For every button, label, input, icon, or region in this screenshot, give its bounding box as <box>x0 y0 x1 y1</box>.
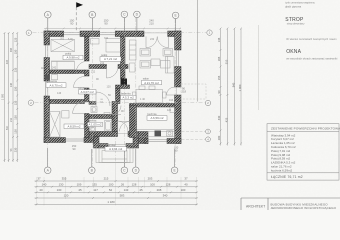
chimney block <box>121 79 128 85</box>
svg-text:A 3,94 m2: A 3,94 m2 <box>109 147 122 151</box>
svg-text:A 6,07 m2: A 6,07 m2 <box>81 90 94 94</box>
wc toilet <box>91 107 97 113</box>
interior wall wc/lazienka vertical <box>112 102 118 132</box>
interior dim texts <box>41 37 174 113</box>
svg-text:143: 143 <box>124 188 129 192</box>
toilet lazienka <box>90 127 96 132</box>
svg-text:212: 212 <box>100 62 105 65</box>
bottom witness lines <box>37 163 197 206</box>
interior wall H1 right stub <box>118 65 128 69</box>
svg-text:242: 242 <box>52 67 57 70</box>
axis circle 2 right <box>205 100 210 105</box>
svg-text:strop drewniany: strop drewniany <box>287 22 305 25</box>
door arc terrace <box>167 87 175 95</box>
right vertical dim line 4 <box>240 28 242 146</box>
window bottom wall left <box>66 139 85 141</box>
door arc lazienka <box>120 122 130 132</box>
flag marker <box>76 2 83 31</box>
svg-text:90: 90 <box>104 22 108 26</box>
svg-text:130: 130 <box>59 182 64 186</box>
sheet divider vertical line <box>197 0 199 102</box>
salon armchair right row2 <box>161 61 171 69</box>
svg-text:90: 90 <box>73 147 76 151</box>
svg-text:1 060: 1 060 <box>238 84 242 91</box>
dim row 3 <box>35 191 198 193</box>
axis circle A top <box>45 11 52 30</box>
axis circle C top <box>121 11 128 30</box>
svg-text:146: 146 <box>217 37 221 42</box>
window left wall lower <box>46 81 48 96</box>
svg-text:A 8,59 m2: A 8,59 m2 <box>67 125 80 129</box>
wall bathroom strip south <box>89 132 118 137</box>
entrance steps <box>96 145 133 163</box>
interior wall H4 wc/lazienka <box>89 115 112 119</box>
axis circle A bottom <box>44 148 51 174</box>
svg-text:A 5,3 m2: A 5,3 m2 <box>122 96 134 100</box>
svg-text:26: 26 <box>121 182 125 186</box>
svg-text:433: 433 <box>6 59 9 64</box>
svg-text:A 1,05 m2: A 1,05 m2 <box>88 123 101 127</box>
svg-text:232: 232 <box>150 38 155 41</box>
window bottom wall kitchen <box>148 140 167 142</box>
salon armchair left row2 <box>140 61 151 69</box>
salon armchair left <box>140 49 151 57</box>
furnace kotlownia <box>45 75 50 80</box>
svg-text:ŁĄCZNIE 76,71 m2: ŁĄCZNIE 76,71 m2 <box>271 175 303 179</box>
axis circle D bottom <box>133 149 140 174</box>
svg-text:150: 150 <box>13 115 17 120</box>
interior wall H3 salon/kuchnia <box>130 104 175 108</box>
svg-text:37: 37 <box>184 177 188 181</box>
svg-text:215: 215 <box>104 177 109 181</box>
terrace door opening right wall <box>175 87 177 95</box>
svg-text:425: 425 <box>225 117 229 122</box>
window right wall salon <box>176 50 178 67</box>
wall left middle <box>44 58 50 82</box>
small table bottom-left room <box>62 111 69 118</box>
svg-text:203: 203 <box>148 177 153 181</box>
bed top-left room <box>52 62 75 70</box>
interior wall H kotlownia/pokoj2 <box>50 100 85 104</box>
axis circle 3 right small <box>206 129 211 134</box>
wall bottom left segment <box>44 138 66 143</box>
wall right lower <box>175 95 182 144</box>
title block <box>241 198 340 210</box>
svg-text:JEDNORODZINNEGO WOLNOSTOJĄCEGO: JEDNORODZINNEGO WOLNOSTOJĄCEGO <box>271 206 337 210</box>
svg-text:100: 100 <box>109 182 114 186</box>
svg-text:128: 128 <box>132 182 137 186</box>
svg-text:208: 208 <box>157 188 162 192</box>
axis circle E top <box>172 12 179 30</box>
door arc top-left room <box>76 62 85 74</box>
right vertical dim line 1 <box>220 28 222 146</box>
svg-text:130: 130 <box>57 188 62 192</box>
svg-text:tynk cementowo-wapienny: tynk cementowo-wapienny <box>285 1 315 4</box>
dim row 5 <box>35 203 198 205</box>
salon armchair right <box>163 49 173 57</box>
entrance axis dashed line <box>115 100 117 163</box>
svg-text:37: 37 <box>37 177 41 181</box>
svg-text:5,00: 5,00 <box>68 38 73 41</box>
axis circle 1 right <box>207 30 212 35</box>
svg-text:510: 510 <box>6 125 9 130</box>
svg-text:302: 302 <box>60 38 65 41</box>
faint right content line <box>258 25 260 110</box>
wall top segment 3 <box>115 31 144 37</box>
interior wall wc north stub <box>89 102 96 105</box>
salon sofa <box>166 57 175 74</box>
svg-text:398: 398 <box>10 47 13 52</box>
interior wall V1 mid2 <box>85 88 90 102</box>
right vertical dim line 3 <box>234 28 236 146</box>
svg-text:we wszystkich oknach zastosowa: we wszystkich oknach zastosować nawiewni… <box>286 58 338 61</box>
WALLS <box>44 31 181 148</box>
door arc bathroom strip <box>96 92 110 106</box>
svg-text:146: 146 <box>10 82 13 87</box>
door arc kotlownia <box>74 77 85 88</box>
door arc entrance <box>118 121 129 132</box>
svg-text:90: 90 <box>175 149 178 153</box>
window left wall upper <box>46 45 48 58</box>
door arc wc <box>112 106 121 115</box>
salon tv <box>130 63 136 72</box>
vestibule east wall <box>133 137 139 149</box>
left vertical dim line 2 <box>8 32 10 162</box>
svg-text:940: 940 <box>232 82 236 87</box>
interior wall H pokoj/kotlownia <box>50 70 85 74</box>
svg-text:510: 510 <box>225 59 229 64</box>
svg-text:A 7,21 m2: A 7,21 m2 <box>104 57 117 61</box>
wardrobe cross top-left room <box>51 40 75 62</box>
kitchen stove <box>155 131 162 137</box>
interior wall V1 mid <box>85 70 90 76</box>
svg-text:211: 211 <box>10 117 13 122</box>
svg-text:117: 117 <box>93 188 98 192</box>
room label lazienka maly <box>88 120 103 127</box>
wall bottom kitchen segment <box>145 139 149 144</box>
INTERIOR <box>41 37 206 163</box>
axis dashed horizontals <box>33 33 207 103</box>
interior wall H2 stub <box>116 85 130 89</box>
svg-text:100: 100 <box>150 182 155 186</box>
interior wall V1 upper <box>85 37 90 62</box>
svg-text:230: 230 <box>13 147 17 152</box>
fridge <box>170 107 175 113</box>
svg-text:155: 155 <box>217 75 221 80</box>
svg-text:A 6,59 m2: A 6,59 m2 <box>150 116 163 120</box>
dim row 4 <box>35 197 198 199</box>
bottom jog block right <box>139 132 149 144</box>
svg-text:120: 120 <box>64 194 69 198</box>
svg-text:kuchnia 6,59m2: kuchnia 6,59m2 <box>271 168 293 172</box>
svg-text:193: 193 <box>169 99 174 102</box>
wall top mid segment <box>80 31 100 37</box>
svg-text:100: 100 <box>181 188 186 192</box>
svg-text:123: 123 <box>92 102 97 105</box>
bathtub <box>105 121 112 132</box>
svg-text:W. wieniec na ścianach zewnęt: W. wieniec na ścianach zewnętrznych i we… <box>286 38 337 41</box>
svg-text:A 6,70 m2: A 6,70 m2 <box>49 83 62 87</box>
svg-text:1 080: 1 080 <box>2 93 5 100</box>
AXES <box>26 0 258 174</box>
table rows <box>271 133 296 172</box>
svg-text:340: 340 <box>163 194 168 198</box>
svg-text:235: 235 <box>13 67 17 72</box>
wall top left segment <box>44 31 64 37</box>
svg-text:128: 128 <box>166 182 171 186</box>
svg-text:210: 210 <box>149 22 154 26</box>
axis circle E bottom <box>171 149 178 174</box>
bed top-middle room <box>106 39 122 53</box>
door arc middle room <box>107 67 119 79</box>
svg-text:135: 135 <box>13 100 17 105</box>
entrance door opening <box>118 132 129 134</box>
wall left lower <box>44 96 50 143</box>
terrace dashed outline <box>181 84 206 99</box>
svg-text:1 40: 1 40 <box>140 98 145 101</box>
svg-text:OKNA: OKNA <box>286 49 301 55</box>
left vertical dim line 1 <box>4 32 6 162</box>
svg-text:125: 125 <box>13 37 17 42</box>
left vertical dim line 3 <box>12 32 14 162</box>
DIMS <box>2 19 243 206</box>
desk top-middle room <box>91 39 100 45</box>
vestibule front wall left <box>99 144 108 149</box>
svg-text:45: 45 <box>139 188 143 192</box>
svg-text:1 180: 1 180 <box>107 200 115 204</box>
axis circle D top <box>134 11 141 30</box>
right vertical dim line 2 <box>226 28 228 146</box>
interior wall V3 lazienka/kuchnia <box>130 106 137 138</box>
axis circle 4 right small <box>206 137 211 142</box>
wall bottom right corner segment <box>167 139 181 144</box>
wall bottom left2 <box>84 138 94 143</box>
dining table <box>133 86 167 107</box>
svg-text:150: 150 <box>13 49 17 54</box>
svg-text:150: 150 <box>13 86 17 91</box>
svg-text:212: 212 <box>91 71 96 74</box>
interior wall H1 under middle room <box>89 65 107 69</box>
salon coffee table <box>151 59 160 66</box>
dim row 2 <box>35 186 198 188</box>
svg-text:gładź gipsowa: gładź gipsowa <box>285 5 301 8</box>
svg-text:135: 135 <box>92 182 97 186</box>
svg-text:140: 140 <box>42 182 47 186</box>
svg-text:440: 440 <box>217 115 221 120</box>
left vertical dim line 4 <box>16 32 18 162</box>
window W1 top wall <box>64 33 80 35</box>
svg-text:45: 45 <box>78 188 82 192</box>
interior wall V2 salon/pokoj <box>121 37 126 79</box>
wall bathroom strip south right <box>128 132 145 137</box>
wardrobe cross bottom-left room <box>50 112 61 138</box>
svg-text:130: 130 <box>13 129 17 134</box>
kitchen sink <box>167 131 173 136</box>
svg-text:120: 120 <box>167 109 172 112</box>
french door arcs salon <box>146 37 169 48</box>
area table border <box>267 124 339 180</box>
svg-text:146: 146 <box>57 92 62 95</box>
svg-text:583: 583 <box>120 194 125 198</box>
axis circle B bottom <box>89 149 96 174</box>
svg-text:52: 52 <box>109 188 113 192</box>
sink lazienka <box>104 113 110 118</box>
axis circle 2 left <box>28 100 33 105</box>
room label pokoj 8,59 <box>64 124 84 129</box>
svg-text:90: 90 <box>70 22 74 26</box>
kitchen counter <box>137 130 175 137</box>
svg-text:40: 40 <box>184 182 188 186</box>
axis dashed verticals <box>48 18 175 167</box>
axis circle B top <box>89 11 96 30</box>
svg-text:120: 120 <box>107 85 112 88</box>
french door opening top wall lintel <box>144 32 168 34</box>
vestibule west wall <box>94 137 100 149</box>
salon wall unit <box>130 40 137 60</box>
RIGHTPANEL <box>241 1 340 210</box>
wall right upper <box>175 31 182 50</box>
svg-text:109: 109 <box>77 182 82 186</box>
svg-text:280: 280 <box>217 135 221 140</box>
axis circle C bottom <box>121 149 128 174</box>
svg-text:ARCHITEKT: ARCHITEKT <box>246 205 265 209</box>
wall top right segment <box>168 31 181 37</box>
small box kotlownia <box>52 75 58 80</box>
svg-text:40: 40 <box>39 188 43 192</box>
wall left upper <box>44 31 50 45</box>
window W2 top wall <box>100 33 116 35</box>
svg-text:A 9,98 m2: A 9,98 m2 <box>66 56 79 60</box>
svg-text:165: 165 <box>217 56 221 61</box>
vestibule front wall right <box>126 144 133 149</box>
svg-text:355: 355 <box>62 177 67 181</box>
svg-text:90: 90 <box>217 90 221 93</box>
top dimension line above wall <box>44 28 181 30</box>
svg-text:ZESTAWIENIE POWIERZCHNI PROJEK: ZESTAWIENIE POWIERZCHNI PROJEKTOWANEJ <box>271 127 340 131</box>
svg-text:A 21,76 m2: A 21,76 m2 <box>144 81 159 85</box>
axis circle 1 left <box>26 30 31 35</box>
svg-text:218: 218 <box>182 90 187 94</box>
interior wall V1 lower <box>85 114 90 138</box>
wall right mid <box>175 67 182 88</box>
dim row 1 <box>35 180 198 182</box>
door arc bottom-left room <box>73 102 85 114</box>
svg-text:342: 342 <box>104 37 109 40</box>
